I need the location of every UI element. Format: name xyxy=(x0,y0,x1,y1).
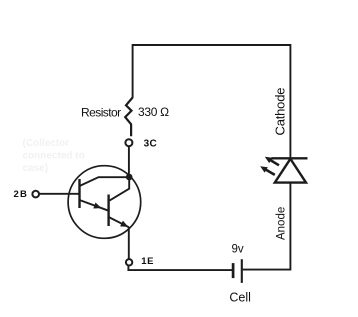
svg-text:3C: 3C xyxy=(144,139,157,150)
svg-text:connected to: connected to xyxy=(23,150,85,161)
svg-text:case): case) xyxy=(23,163,49,174)
svg-text:330 Ω: 330 Ω xyxy=(138,105,169,119)
svg-text:Cathode: Cathode xyxy=(273,88,288,136)
svg-text:Resistor: Resistor xyxy=(81,105,121,119)
svg-text:Cell: Cell xyxy=(229,290,251,304)
svg-text:9v: 9v xyxy=(232,244,244,256)
svg-text:(Collector: (Collector xyxy=(23,138,70,149)
svg-text:Anode: Anode xyxy=(276,207,288,240)
svg-text:1E: 1E xyxy=(141,256,154,267)
svg-text:2B: 2B xyxy=(14,189,29,200)
